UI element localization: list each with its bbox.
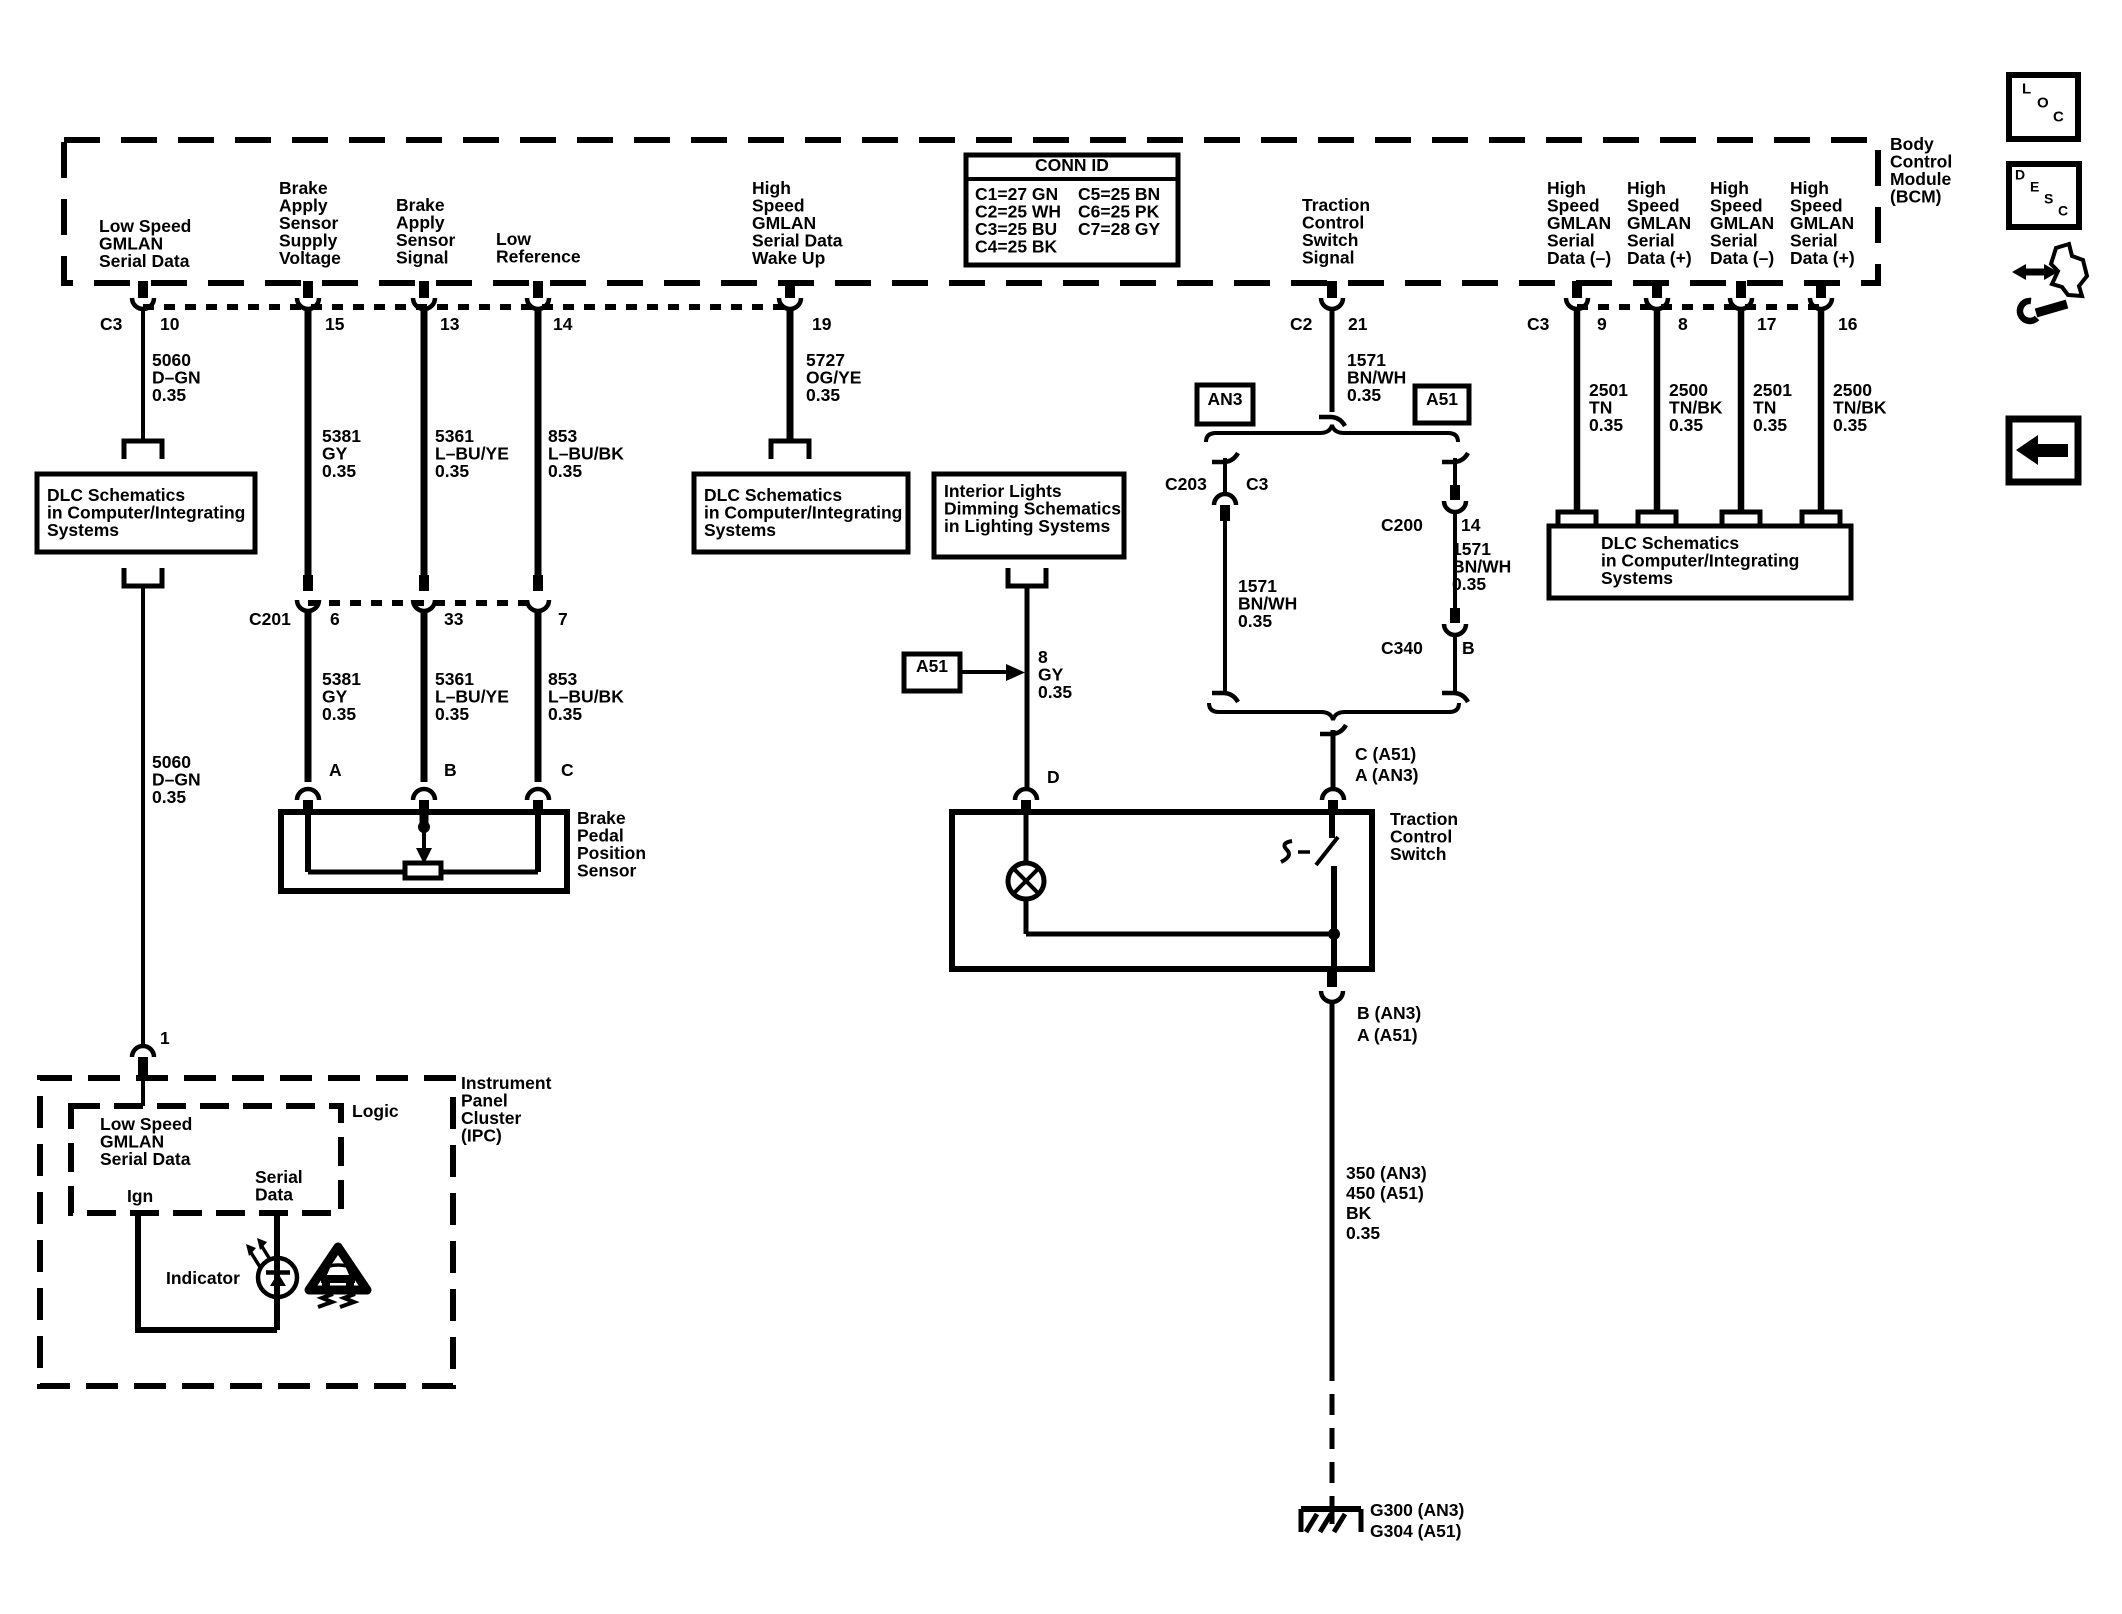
back arrow icon box <box>2009 419 2078 482</box>
wire label 350 (AN3) 450 (A51) BK 0.35 <box>1346 1163 1427 1243</box>
indicator circuit right leg through LED <box>274 1213 280 1330</box>
svg-text:Signal: Signal <box>396 247 449 267</box>
BCM pin label High Speed GMLAN Serial Data (+) pin 16 <box>1790 178 1855 268</box>
wire to C203 <box>1223 458 1227 492</box>
svg-text:7: 7 <box>558 609 568 629</box>
BCM pin label Traction Control Switch Signal <box>1302 195 1370 267</box>
wire 5381 GY from C201 to sensor pin A <box>305 609 312 782</box>
svg-text:Data (+): Data (+) <box>1790 248 1855 268</box>
wire label 1571 BN/WH 0.35 <box>1347 350 1406 405</box>
BCM pin label High Speed GMLAN Serial Data (+) pin 8 <box>1627 178 1692 268</box>
wire label 2500 TN/BK 0.35 <box>1833 380 1887 435</box>
wire label 853 L-BU/BK 0.35 <box>548 426 624 481</box>
svg-text:0.35: 0.35 <box>435 461 469 481</box>
svg-text:Reference: Reference <box>496 247 581 267</box>
svg-text:Indicator: Indicator <box>166 1268 240 1288</box>
svg-text:0.35: 0.35 <box>1347 385 1381 405</box>
DLC Schematics box (middle) <box>694 474 908 552</box>
wire label 5060 D-GN 0.35 <box>152 350 201 405</box>
label Brake Pedal Position Sensor <box>577 808 646 880</box>
wire 5361 L-BU/YE from C201 to sensor pin B <box>421 609 428 782</box>
right branch hook below brace <box>1442 453 1468 462</box>
label Logic <box>352 1101 399 1121</box>
BCM pin 15 terminal stub and connector half-circle <box>297 281 319 309</box>
IPC pin 1 half-circle and stub <box>132 1028 170 1077</box>
svg-text:B: B <box>444 760 457 780</box>
wire label 853 L-BU/BK 0.35 (lower) <box>548 669 624 724</box>
wire label 8 GY 0.35 <box>1038 647 1072 702</box>
BCM pin 17 terminal stub and connector half-circle <box>1730 281 1752 309</box>
svg-text:C7=28 GY: C7=28 GY <box>1078 219 1161 239</box>
off-page bracket above right DLC box <box>1558 512 1596 528</box>
sensor potentiometer element box <box>405 863 441 878</box>
connector bus dotted line left group (C3/C201 harness) <box>143 304 790 310</box>
svg-text:C203: C203 <box>1165 474 1207 494</box>
wire 1571 BN/WH right branch <box>1453 512 1457 610</box>
label Traction Control Switch <box>1390 809 1458 864</box>
svg-text:L: L <box>2022 80 2031 97</box>
switch pin C/A half-circle and stub <box>1322 789 1344 814</box>
svg-text:0.35: 0.35 <box>1669 415 1703 435</box>
wire label 5727 OG/YE 0.35 <box>806 350 861 405</box>
svg-text:C340: C340 <box>1381 638 1423 658</box>
switch output wire to box bottom <box>1331 866 1337 969</box>
svg-text:0.35: 0.35 <box>806 385 840 405</box>
off-page bracket above right DLC box <box>1638 512 1676 528</box>
svg-text:G304 (A51): G304 (A51) <box>1370 1521 1461 1541</box>
wire label 1571 BN/WH 0.35 (left branch) <box>1238 576 1297 631</box>
svg-text:Switch: Switch <box>1390 844 1446 864</box>
labels C (A51) A (AN3) <box>1355 744 1419 785</box>
svg-text:in Lighting Systems: in Lighting Systems <box>944 516 1111 536</box>
svg-text:450 (A51): 450 (A51) <box>1346 1183 1424 1203</box>
LED light arrows <box>246 1238 271 1267</box>
wire 5060 D-GN from BCM pin 10 to DLC schematics <box>141 309 145 439</box>
Body Control Module (BCM) dashed outline <box>64 140 1878 283</box>
wire label 5381 GY 0.35 (lower) <box>322 669 361 724</box>
off-page bracket below interior lights box <box>1008 568 1046 586</box>
C201 cavity 6 stub and half-circle <box>297 575 319 611</box>
wire below C340 <box>1453 635 1457 695</box>
svg-text:0.35: 0.35 <box>1452 574 1486 594</box>
label Serial Data (IPC) <box>255 1167 303 1204</box>
svg-text:CONN ID: CONN ID <box>1035 155 1109 175</box>
C340 connector stub and half-circle <box>1444 608 1466 635</box>
switch actuator dashed link <box>1281 841 1310 862</box>
indicator LED symbol <box>258 1258 297 1297</box>
svg-text:C (A51): C (A51) <box>1355 744 1416 764</box>
svg-text:Data (–): Data (–) <box>1547 248 1611 268</box>
svg-text:Wake Up: Wake Up <box>752 248 825 268</box>
traction warning triangle icon with car and skid marks <box>309 1247 367 1307</box>
svg-text:0.35: 0.35 <box>1038 682 1072 702</box>
C201 connector dotted bus <box>308 600 538 606</box>
svg-text:AN3: AN3 <box>1207 389 1242 409</box>
wire 1571 BN/WH from BCM pin 21 to splice brace <box>1330 309 1335 412</box>
wire 853 L-BU/BK from C201 to sensor pin C <box>535 609 542 782</box>
wire 5361 L-BU/YE from BCM pin 13 to C201 <box>421 309 428 577</box>
top splice brace <box>1206 425 1458 442</box>
label Instrument Panel Cluster (IPC) <box>461 1073 552 1145</box>
indicator circuit left leg from Ign <box>135 1213 141 1330</box>
svg-text:13: 13 <box>440 314 460 334</box>
svg-text:0.35: 0.35 <box>548 704 582 724</box>
svg-text:Signal: Signal <box>1302 247 1355 267</box>
wire 5060 D-GN from DLC to IPC pin 1 <box>141 586 145 1046</box>
ground symbol G300/G304 <box>1301 1500 1361 1532</box>
indicator circuit bottom wire <box>135 1327 277 1333</box>
BCM pin label Low Speed GMLAN Serial Data <box>99 216 191 271</box>
BCM pin label High Speed GMLAN Serial Data (-) pin 17 <box>1710 178 1774 268</box>
svg-text:0.35: 0.35 <box>1238 611 1272 631</box>
switch pin D half-circle and stub <box>1015 767 1060 814</box>
switch fixed contact wire <box>1329 815 1335 838</box>
BCM pin label High Speed GMLAN Serial Data Wake Up <box>752 178 843 268</box>
switch pin B/A stub and half-circle below box <box>1321 969 1343 1002</box>
C201 row labels C201 6 33 7 <box>249 609 568 629</box>
svg-text:Sensor: Sensor <box>577 860 637 880</box>
BCM pin label Low Reference <box>496 229 581 266</box>
labels B (AN3) A (A51) <box>1357 1003 1421 1045</box>
svg-text:14: 14 <box>553 314 573 334</box>
wire pin 1 to logic block <box>141 1077 145 1106</box>
C201 cavity 7 stub and half-circle <box>527 575 549 611</box>
sensor internal resistor track <box>308 870 538 875</box>
left branch hook to bottom brace <box>1212 693 1238 702</box>
svg-text:(BCM): (BCM) <box>1890 186 1942 206</box>
off-page bracket above right DLC box <box>1722 512 1760 528</box>
wire end hook at top brace <box>1319 417 1345 426</box>
wire 2500 TN/BK from BCM to DLC <box>1818 309 1825 510</box>
svg-text:21: 21 <box>1348 314 1368 334</box>
BCM pin 21 terminal stub and connector half-circle <box>1321 281 1343 309</box>
A51 reference box with arrow <box>904 654 1025 691</box>
C200 connector stub and half-circle <box>1444 485 1466 512</box>
off-page bracket above right DLC box <box>1802 512 1840 528</box>
BCM pin label High Speed GMLAN Serial Data (-) pin 9 <box>1547 178 1611 268</box>
indicator lamp symbol (circle with X) <box>1008 863 1044 899</box>
svg-text:14: 14 <box>1461 515 1481 535</box>
svg-text:C2: C2 <box>1290 314 1313 334</box>
svg-text:C3: C3 <box>1527 314 1550 334</box>
svg-text:0.35: 0.35 <box>152 787 186 807</box>
C203 labels C203 C3 <box>1165 474 1269 494</box>
BCM pin label Brake Apply Sensor Supply Voltage <box>279 178 341 268</box>
svg-text:0.35: 0.35 <box>548 461 582 481</box>
BCM pin 14 terminal stub and connector half-circle <box>527 281 549 309</box>
wire 1571 BN/WH left branch <box>1223 521 1227 695</box>
svg-text:1: 1 <box>160 1028 170 1048</box>
svg-text:0.35: 0.35 <box>1589 415 1623 435</box>
svg-text:19: 19 <box>812 314 832 334</box>
off-page bracket above left DLC box <box>124 441 162 459</box>
svg-text:Ign: Ign <box>127 1186 153 1206</box>
connector bus dotted line right group <box>1577 304 1821 310</box>
CONN ID table <box>966 155 1178 265</box>
Instrument Panel Cluster dashed box <box>40 1078 453 1386</box>
svg-text:C201: C201 <box>249 609 291 629</box>
svg-text:Systems: Systems <box>47 520 119 540</box>
label Low Speed GMLAN Serial Data (IPC) <box>100 1114 192 1169</box>
svg-text:B: B <box>1462 638 1475 658</box>
svg-text:10: 10 <box>160 314 180 334</box>
DLC Schematics box (left) <box>37 474 255 552</box>
svg-text:Logic: Logic <box>352 1101 399 1121</box>
label Body Control Module (BCM) <box>1890 134 1952 206</box>
bottom splice brace <box>1209 703 1459 720</box>
svg-text:A51: A51 <box>1426 389 1458 409</box>
svg-text:(IPC): (IPC) <box>461 1125 502 1145</box>
wire label 2500 TN/BK 0.35 <box>1669 380 1723 435</box>
sensor pin C half-circle and stub <box>527 760 574 814</box>
junction dot <box>1329 929 1340 940</box>
wire from brace to switch pin C/A <box>1331 730 1336 789</box>
pin row labels C3 9 8 17 16 <box>1527 314 1858 334</box>
svg-text:BK: BK <box>1346 1203 1372 1223</box>
svg-text:O: O <box>2037 94 2049 111</box>
svg-text:8: 8 <box>1678 314 1688 334</box>
switch blade <box>1316 837 1338 865</box>
Interior Lights Dimming Schematics box <box>934 474 1124 557</box>
wire label 1571 BN/WH 0.35 (right branch) <box>1452 539 1511 594</box>
label Ign <box>127 1186 153 1206</box>
labels G300 (AN3) G304 (A51) <box>1370 1500 1464 1541</box>
svg-text:Systems: Systems <box>1601 568 1673 588</box>
svg-text:C3: C3 <box>1246 474 1269 494</box>
BCM pin 13 terminal stub and connector half-circle <box>413 281 435 309</box>
A51 reference box (at brace) <box>1415 386 1469 423</box>
BCM pin 8 terminal stub and connector half-circle <box>1646 281 1668 309</box>
Brake Pedal Position Sensor box <box>281 812 567 891</box>
sensor wiper arrow <box>416 827 432 864</box>
svg-text:A: A <box>329 760 342 780</box>
wire 8 GY from dimming schematics to switch pin D <box>1025 586 1030 789</box>
svg-text:A (AN3): A (AN3) <box>1355 765 1419 785</box>
wire lamp to junction <box>1024 899 1029 934</box>
wire 5727 OG/YE from BCM pin 19 <box>787 309 794 439</box>
C340 labels C340 B <box>1381 638 1475 658</box>
svg-text:A51: A51 <box>916 656 948 676</box>
svg-text:E: E <box>2030 179 2039 195</box>
svg-text:S: S <box>2044 191 2053 207</box>
svg-text:Voltage: Voltage <box>279 248 341 268</box>
hook below bottom brace <box>1320 725 1346 734</box>
wire 5381 GY from BCM pin 15 to C201 <box>305 309 312 577</box>
svg-text:D: D <box>1047 767 1060 787</box>
BCM pin 16 terminal stub and connector half-circle <box>1810 281 1832 309</box>
svg-text:C3: C3 <box>100 314 123 334</box>
wire label 5060 D-GN 0.35 (lower) <box>152 752 201 807</box>
svg-text:Data: Data <box>255 1185 293 1205</box>
wire 2501 TN from BCM to DLC <box>1738 309 1745 510</box>
wire 853 L-BU/BK from BCM pin 14 to C201 <box>535 309 542 577</box>
svg-text:0.35: 0.35 <box>1753 415 1787 435</box>
wire to C200 <box>1453 458 1457 487</box>
svg-text:0.35: 0.35 <box>322 461 356 481</box>
wire label 2501 TN 0.35 <box>1753 380 1792 435</box>
svg-text:Serial Data: Serial Data <box>99 251 190 271</box>
svg-text:15: 15 <box>325 314 345 334</box>
switch lamp wire from pin D <box>1024 815 1029 864</box>
IPC logic dashed box <box>71 1106 341 1213</box>
svg-text:0.35: 0.35 <box>1833 415 1867 435</box>
C200 labels C200 14 <box>1381 515 1481 535</box>
svg-text:33: 33 <box>444 609 464 629</box>
svg-text:0.35: 0.35 <box>152 385 186 405</box>
pin row labels C3 10 15 13 14 19 <box>100 314 832 334</box>
label Indicator <box>166 1268 240 1288</box>
right branch hook to bottom brace <box>1442 693 1468 702</box>
sensor internal right leg (pin C) <box>535 815 541 872</box>
wire label 5361 L-BU/YE 0.35 <box>435 426 509 481</box>
LOC icon box <box>2009 75 2078 139</box>
sensor pin B half-circle and stub <box>413 760 457 814</box>
pin row labels C2 21 <box>1290 314 1368 334</box>
BCM pin 19 terminal stub and connector half-circle <box>779 281 801 309</box>
svg-text:Data (+): Data (+) <box>1627 248 1692 268</box>
AN3 reference box <box>1197 385 1253 424</box>
Traction Control Switch box <box>952 812 1372 969</box>
wire label 5381 GY 0.35 <box>322 426 361 481</box>
svg-text:0.35: 0.35 <box>322 704 356 724</box>
DESC icon box <box>2009 164 2079 227</box>
double arrow and wrench icon <box>2012 244 2087 321</box>
svg-text:Serial Data: Serial Data <box>100 1149 191 1169</box>
sensor pin A half-circle and stub <box>297 760 342 814</box>
svg-text:Data (–): Data (–) <box>1710 248 1774 268</box>
BCM pin 10 terminal stub and connector half-circle <box>132 281 154 309</box>
svg-text:B (AN3): B (AN3) <box>1357 1003 1421 1023</box>
svg-text:9: 9 <box>1597 314 1607 334</box>
svg-text:16: 16 <box>1838 314 1858 334</box>
wire 350/450 BK from switch to ground <box>1330 1002 1335 1360</box>
svg-text:17: 17 <box>1757 314 1776 334</box>
C203 connector half-circle and stub <box>1214 494 1236 521</box>
wire label 2501 TN 0.35 <box>1589 380 1628 435</box>
svg-text:D: D <box>2015 167 2025 183</box>
BCM pin label Brake Apply Sensor Signal <box>396 195 456 267</box>
svg-text:0.35: 0.35 <box>1346 1223 1380 1243</box>
svg-text:A (A51): A (A51) <box>1357 1025 1418 1045</box>
svg-text:C: C <box>2058 203 2068 219</box>
left branch hook below brace <box>1212 453 1238 462</box>
C201 cavity 33 stub and half-circle <box>413 575 435 611</box>
svg-text:350 (AN3): 350 (AN3) <box>1346 1163 1427 1183</box>
wire 2500 TN/BK from BCM to DLC <box>1654 309 1661 510</box>
svg-text:C: C <box>2053 108 2064 125</box>
BCM pin 9 terminal stub and connector half-circle <box>1566 281 1588 309</box>
wire 2501 TN from BCM to DLC <box>1574 309 1581 510</box>
sensor wiper stub pin B with junction dot <box>419 812 430 833</box>
off-page bracket below left DLC box <box>124 568 162 586</box>
wire lamp bottom horizontal to switch <box>1026 932 1334 937</box>
sensor internal left leg (pin A) <box>305 815 311 872</box>
svg-text:0.35: 0.35 <box>435 704 469 724</box>
wire 350/450 BK dashed section <box>1330 1360 1335 1500</box>
off-page bracket above middle DLC box <box>771 441 809 459</box>
DLC Schematics box (right) <box>1549 526 1851 598</box>
svg-text:6: 6 <box>330 609 340 629</box>
svg-text:C: C <box>561 760 574 780</box>
wire label 5361 L-BU/YE 0.35 (lower) <box>435 669 509 724</box>
svg-text:Systems: Systems <box>704 520 776 540</box>
svg-text:C4=25 BK: C4=25 BK <box>975 236 1058 256</box>
svg-text:C200: C200 <box>1381 515 1423 535</box>
svg-text:G300 (AN3): G300 (AN3) <box>1370 1500 1464 1520</box>
